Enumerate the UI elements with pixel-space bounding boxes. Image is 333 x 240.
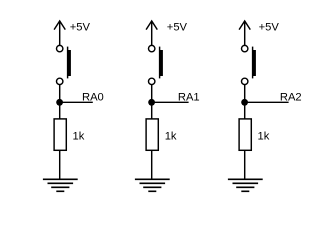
resistor R body (column 1) (54, 119, 66, 150)
wire: resistor to ground (column 1) (59, 150, 61, 179)
node RA0 stub wire (60, 101, 93, 103)
push-to-make switch (column 1) (57, 45, 71, 84)
svg-text:+5V: +5V (259, 22, 280, 34)
node RA2 stub wire (245, 101, 289, 103)
power +5V arrow symbol (column 3) (239, 21, 250, 30)
junction dot at node RA0 (56, 99, 63, 106)
svg-text:+5V: +5V (70, 22, 91, 34)
junction dot at node RA2 (241, 99, 248, 106)
svg-text:1k: 1k (73, 130, 85, 142)
junction dot at node RA1 (148, 99, 155, 106)
power +5V arrow symbol (column 2) (146, 21, 157, 30)
wire: switch to node RA0 (column 1) (59, 85, 61, 103)
wire: node RA1 to resistor (column 2) (151, 102, 153, 119)
wire: resistor to ground (column 3) (244, 150, 246, 179)
wire: switch to node RA1 (column 2) (151, 85, 153, 103)
svg-text:RA1: RA1 (178, 92, 200, 104)
push-to-make switch (column 3) (242, 45, 256, 84)
node RA1 stub wire (152, 101, 189, 103)
svg-text:1k: 1k (258, 130, 270, 142)
wire: +5V arrow to switch top contact (column 1) (59, 21, 61, 45)
wire: node RA0 to resistor (column 1) (59, 102, 61, 119)
wire: +5V arrow to switch top contact (column 3) (244, 21, 246, 45)
wire: node RA2 to resistor (column 3) (244, 102, 246, 119)
svg-text:RA0: RA0 (82, 92, 104, 104)
svg-text:RA2: RA2 (280, 92, 302, 104)
push-to-make switch (column 2) (149, 45, 163, 84)
ground symbol (column 3) (228, 179, 263, 191)
wire: resistor to ground (column 2) (151, 150, 153, 179)
svg-text:1k: 1k (165, 130, 177, 142)
wire: switch to node RA2 (column 3) (244, 85, 246, 103)
svg-text:+5V: +5V (167, 22, 188, 34)
ground symbol (column 1) (43, 179, 78, 191)
resistor R body (column 2) (146, 119, 158, 150)
wire: +5V arrow to switch top contact (column 2) (151, 21, 153, 45)
power +5V arrow symbol (column 1) (54, 21, 65, 30)
ground symbol (column 2) (135, 179, 170, 191)
resistor R body (column 3) (239, 119, 251, 150)
